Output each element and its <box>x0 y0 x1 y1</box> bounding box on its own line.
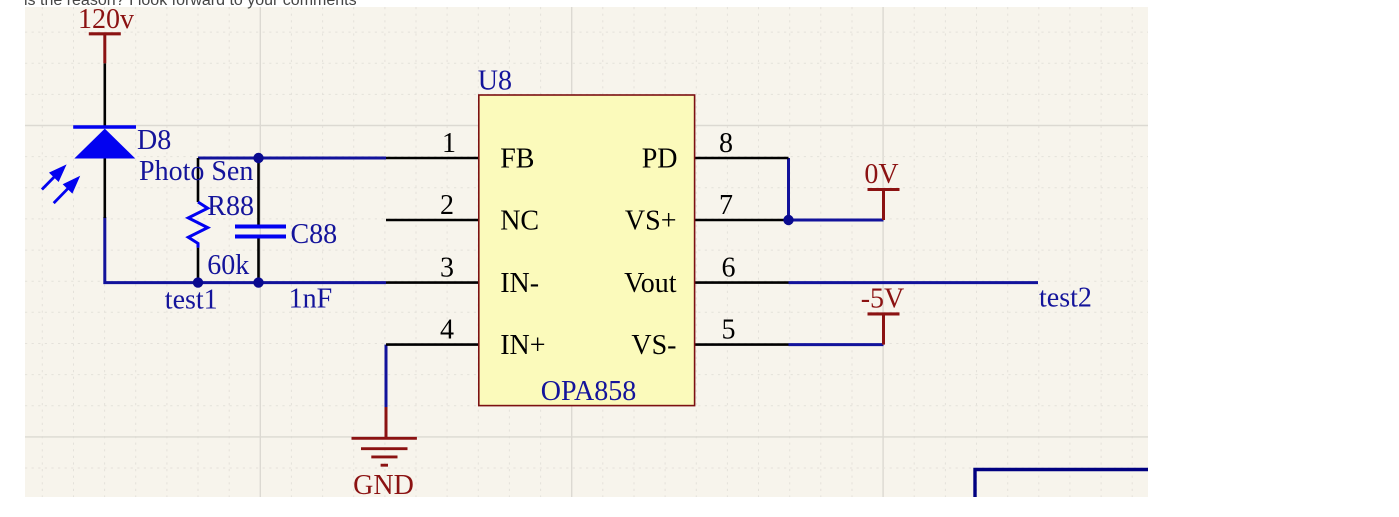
svg-text:test1: test1 <box>165 285 218 316</box>
svg-text:3: 3 <box>440 252 454 283</box>
svg-text:FB: FB <box>500 144 534 175</box>
svg-text:PD: PD <box>642 144 678 175</box>
svg-text:VS-: VS- <box>631 330 676 361</box>
svg-text:IN+: IN+ <box>500 330 545 361</box>
svg-text:OPA858: OPA858 <box>541 376 636 407</box>
svg-text:0V: 0V <box>864 159 898 190</box>
svg-text:4: 4 <box>440 315 454 346</box>
svg-text:R88: R88 <box>207 191 254 222</box>
svg-text:6: 6 <box>722 252 736 283</box>
svg-text:-5V: -5V <box>861 284 905 315</box>
svg-text:60k: 60k <box>207 250 249 281</box>
svg-text:GND: GND <box>353 470 414 501</box>
svg-text:U8: U8 <box>478 66 512 97</box>
svg-text:D8: D8 <box>137 125 171 156</box>
svg-text:Photo Sen: Photo Sen <box>139 156 253 187</box>
svg-text:1nF: 1nF <box>289 284 333 315</box>
svg-text:5: 5 <box>722 315 736 346</box>
svg-text:7: 7 <box>719 190 733 221</box>
svg-text:1: 1 <box>442 128 456 159</box>
svg-text:is the reason? I look forward: is the reason? I look forward to your co… <box>24 0 357 9</box>
svg-text:Vout: Vout <box>624 268 677 299</box>
svg-text:NC: NC <box>500 206 539 237</box>
svg-text:2: 2 <box>440 190 454 221</box>
svg-text:IN-: IN- <box>500 268 539 299</box>
svg-text:VS+: VS+ <box>625 206 677 237</box>
svg-text:C88: C88 <box>291 219 338 250</box>
svg-text:test2: test2 <box>1039 283 1092 314</box>
svg-text:8: 8 <box>719 128 733 159</box>
